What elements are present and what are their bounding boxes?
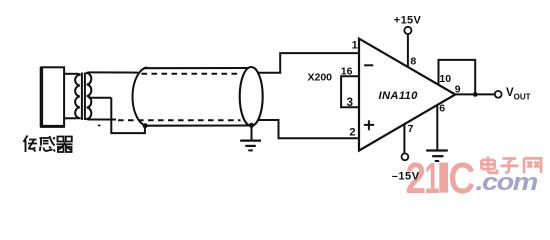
svg-text:+15V: +15V	[394, 15, 422, 27]
svg-text:10: 10	[439, 73, 451, 85]
wire T1 top to cable	[90, 71, 138, 73]
pin8 wire	[407, 34, 409, 67]
svg-text:3: 3	[347, 97, 353, 109]
op-amp U1 triangle	[359, 39, 455, 151]
svg-text:6: 6	[439, 102, 445, 114]
ground cable shield	[251, 126, 253, 141]
wire lower conductor to pin2	[258, 120, 360, 138]
svg-text:8: 8	[410, 55, 416, 67]
transformer core	[81, 73, 83, 121]
svg-text:1: 1	[352, 39, 358, 51]
pin9 output wire	[455, 93, 495, 95]
pin7 wire	[403, 124, 405, 153]
-15V terminal	[402, 153, 409, 160]
svg-text:OUT: OUT	[514, 93, 531, 102]
conductor lower dashed	[118, 119, 241, 121]
wire sensor-top to T1	[64, 73, 76, 75]
cable right ellipse	[240, 67, 263, 126]
pin10 feedback loop	[439, 60, 476, 95]
ground pin6	[426, 149, 448, 151]
stray dash	[98, 124, 101, 126]
wire T1 bottom to cable	[90, 119, 116, 121]
cable top line	[144, 67, 250, 69]
pin6 wire	[436, 105, 438, 150]
wire sensor-bottom to T1	[64, 117, 76, 119]
wire shield tie-down	[111, 98, 145, 133]
sensor body	[41, 67, 64, 126]
gain bracket pins 16-3	[341, 76, 359, 107]
transformer T1 right winding	[87, 72, 92, 119]
output terminal	[495, 91, 502, 98]
svg-text:16: 16	[341, 66, 353, 78]
watermark 21IC	[406, 153, 476, 202]
wire upper conductor to pin1	[257, 53, 359, 73]
conductor upper dashed	[142, 73, 241, 75]
svg-text:X200: X200	[308, 71, 333, 83]
+15V terminal	[404, 27, 411, 34]
minus input mark	[364, 64, 373, 66]
label 传感器	[24, 136, 73, 153]
watermark .com	[476, 168, 538, 195]
svg-text:INA110: INA110	[379, 90, 419, 102]
svg-text:C: C	[449, 154, 476, 201]
junction dot shield right	[249, 123, 254, 128]
svg-text:2: 2	[349, 127, 355, 139]
cable left arc	[133, 67, 148, 125]
svg-text:–15V: –15V	[392, 171, 420, 183]
wire T1 center-tap	[89, 97, 112, 99]
plus input mark	[364, 120, 374, 130]
watermark 电子网	[482, 157, 542, 174]
svg-text:9: 9	[455, 84, 461, 96]
transformer T1 left winding	[75, 74, 80, 119]
cable bottom line	[146, 124, 250, 126]
svg-text:7: 7	[408, 123, 414, 135]
junction dot output	[473, 92, 478, 97]
junction dot left shield	[143, 123, 148, 128]
